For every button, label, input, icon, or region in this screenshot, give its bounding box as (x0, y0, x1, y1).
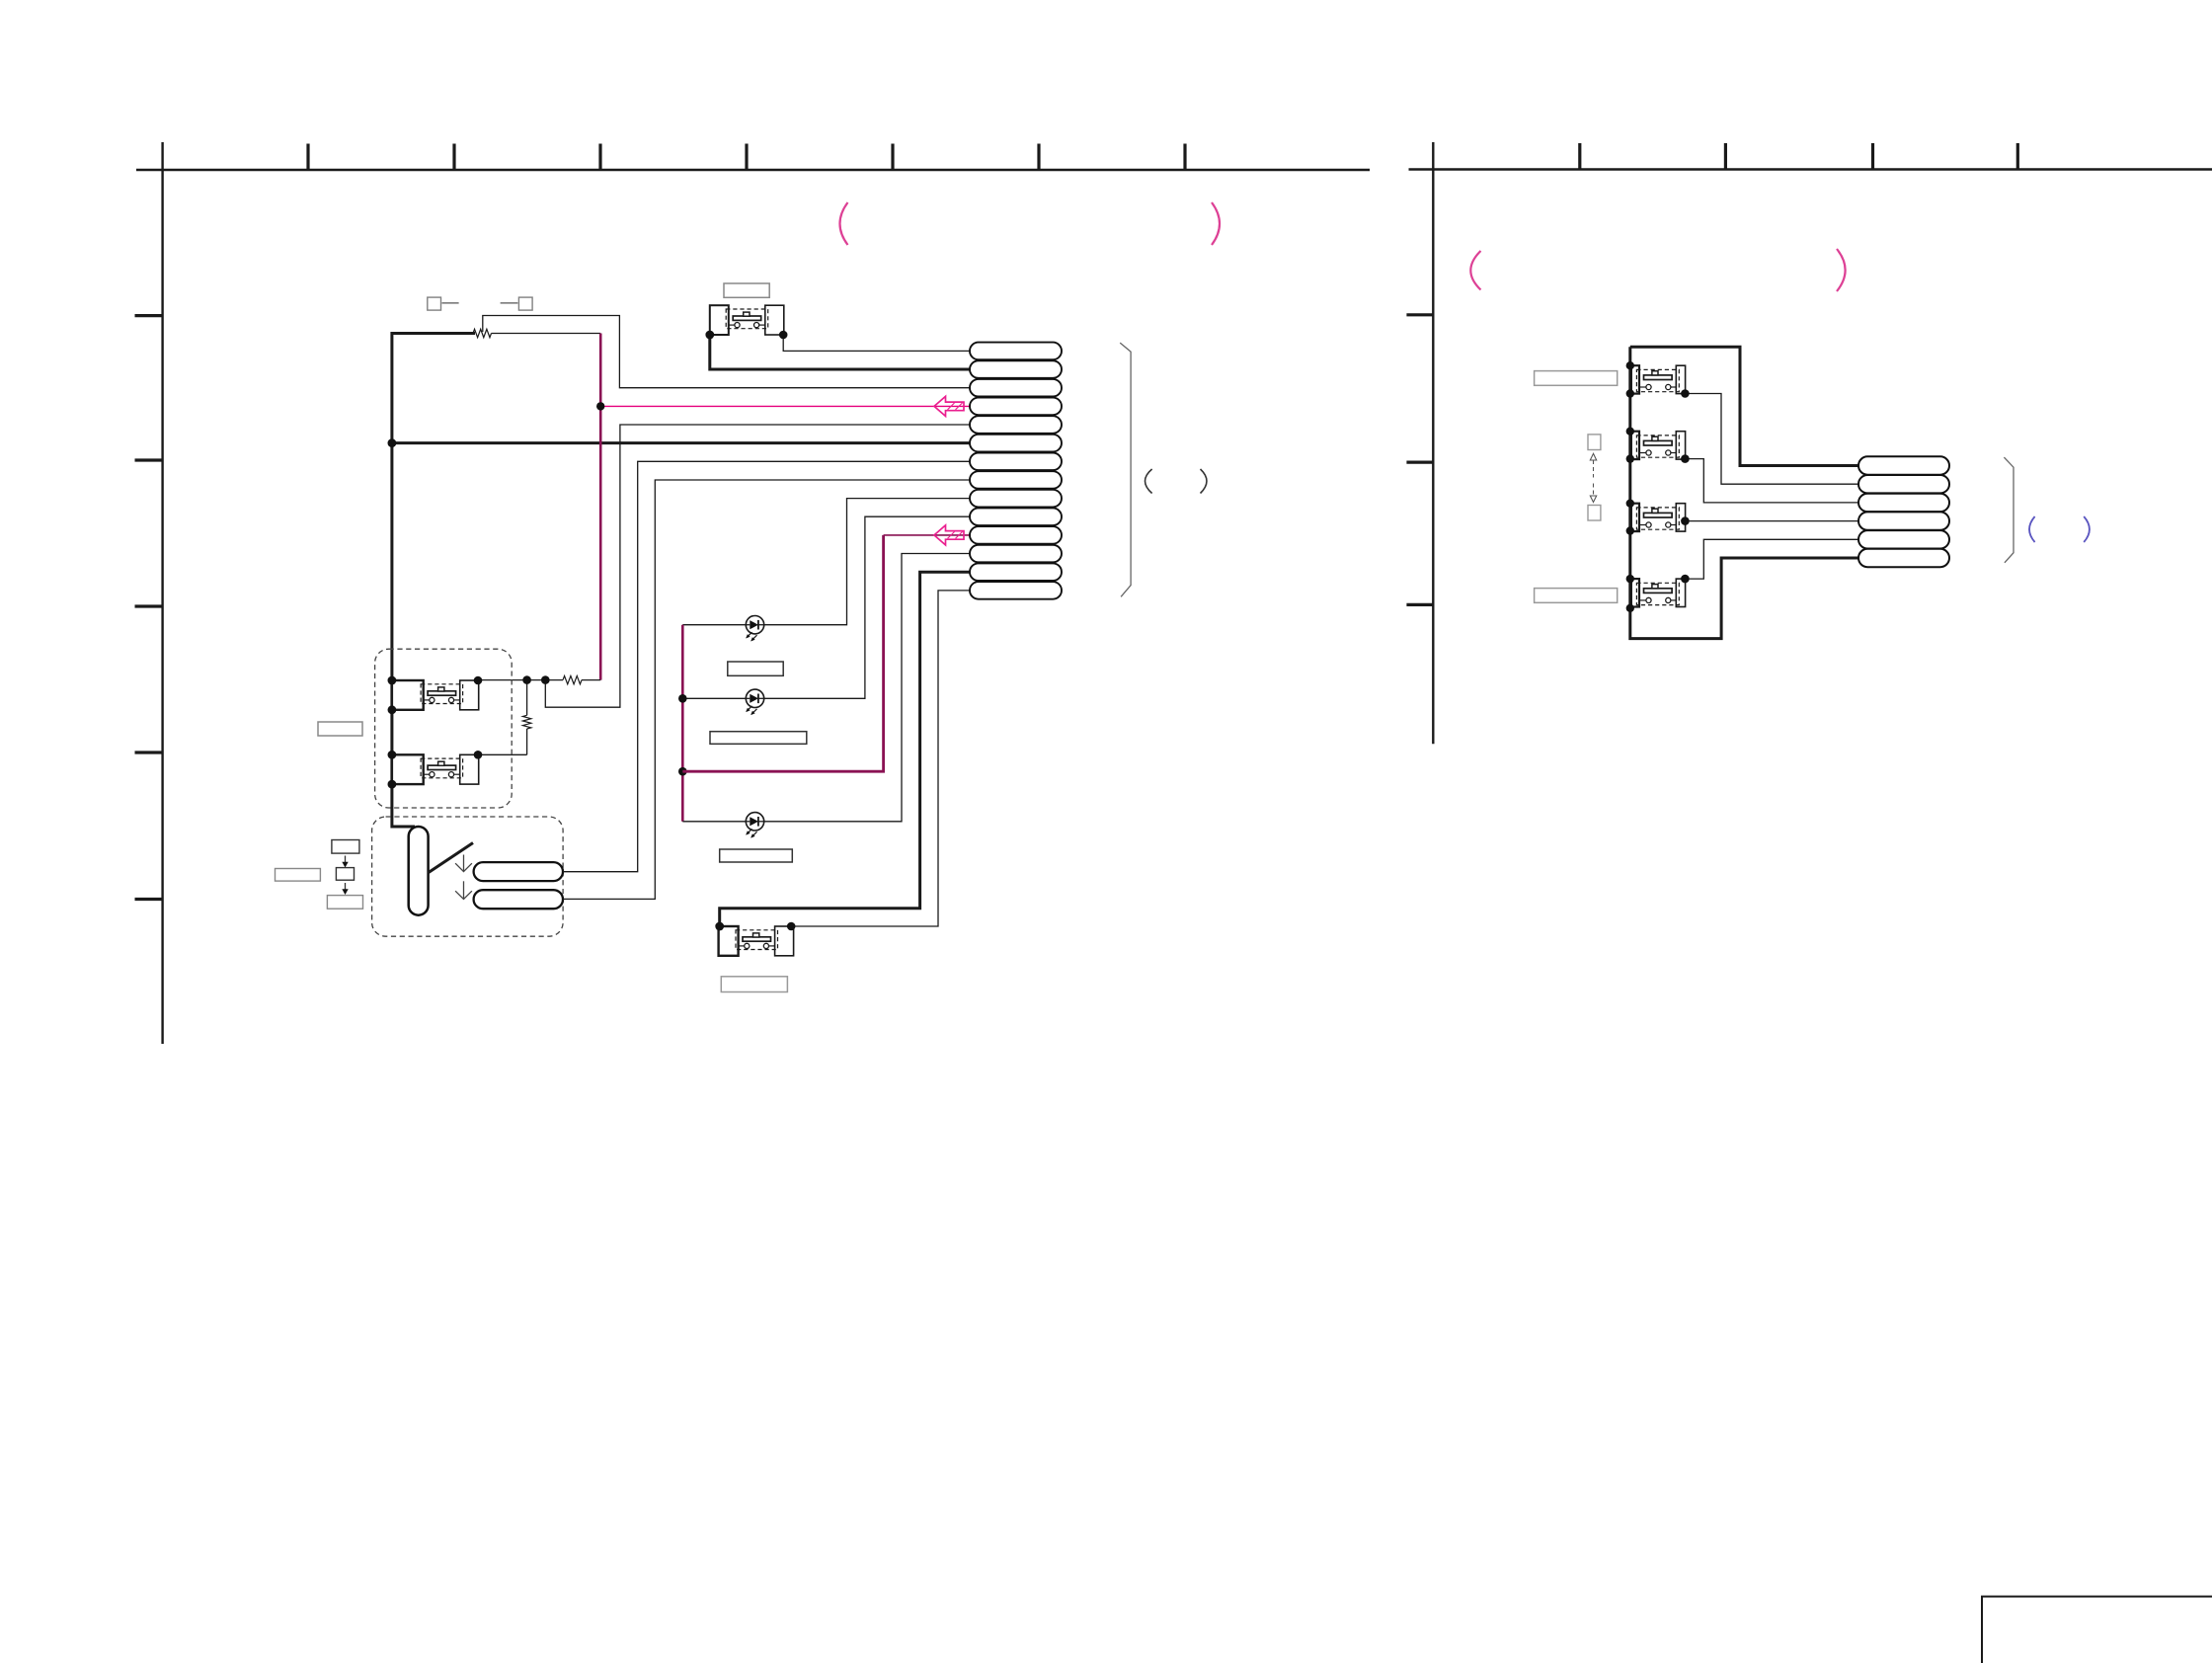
jog contact pill 1 (474, 862, 563, 881)
wire: bold bus from resistor to left vertical rail (392, 334, 475, 681)
small square (direction indicator upper) (1588, 435, 1601, 450)
wire: S1 right pin to pill 1 (783, 335, 970, 351)
wire: pill 12 down to LED D3 (764, 554, 970, 822)
connector CN1 pills (14 pins) (970, 343, 1062, 599)
label box D (jog, wide left) (276, 869, 321, 882)
tact switch S4 (bottom) (719, 926, 794, 956)
left sheet title parentheses (840, 202, 848, 245)
wire: S5 to pill R2 (1685, 394, 1858, 485)
wire: bold rail through key block down to jog block (392, 680, 415, 827)
jog direction chevron arrow 1 (455, 855, 472, 872)
wire: pill 5 net down-left to key common node (545, 425, 970, 707)
wire: pill 13 bold path to bottom switch S4 (720, 572, 970, 926)
arrow from box B to box C (342, 883, 348, 895)
label box for LED D1 (728, 662, 783, 675)
wire: S1 left pin to pill 2 (bold) (710, 335, 970, 369)
net: purple vertical from R1 down to resistor R2 (599, 334, 602, 680)
wire: bold bus left rail and bottom run to pill R6 (1630, 347, 1858, 638)
wire: pill 9 down to LED D1 (764, 499, 970, 625)
right sheet title parentheses (1470, 251, 1480, 290)
node: S1 pin junction dots (705, 331, 787, 340)
node: junction of bold bus and long bold wire to pill 6 (388, 438, 971, 447)
jog direction chevron arrow 2 (455, 881, 472, 899)
tact switch S2 (key block upper) (392, 680, 479, 710)
label box below S4 (721, 977, 787, 992)
label box C (jog, lower) (327, 896, 362, 910)
node: key common junction dots (522, 675, 549, 684)
node: S2 junction dots (388, 676, 483, 715)
resistor R3 (vertical, between key rows) (478, 680, 531, 755)
bracket for connector CN1 (1120, 343, 1131, 596)
node: S8 junction dots (1626, 575, 1690, 612)
dashed arrow down (1590, 484, 1596, 503)
node: S6 junction dots (1626, 428, 1690, 463)
label box for LED D2 (710, 732, 807, 745)
frame: right sheet ruler border (1406, 142, 2212, 744)
tact switch S8 (1631, 579, 1686, 606)
connector square (test point) with lead, right (501, 297, 533, 310)
jog contact pill 2 (474, 890, 563, 909)
dashed enclosure: key switch block (375, 649, 513, 808)
page corner box (bottom right) (1982, 1597, 2212, 1663)
wire: key switch commons to resistor R2 and purple net (478, 679, 563, 681)
label box for top switch (724, 283, 769, 297)
tact switch S5 (1631, 365, 1686, 393)
tact switch S3 (key block lower) (392, 754, 479, 784)
tact switch S6 (1631, 432, 1686, 459)
LED D1 (682, 616, 763, 642)
label box for switch S5 (1535, 371, 1618, 386)
tact switch S1 (top) (710, 305, 784, 335)
net: bright magenta wire to connector pill 4 with arrow (596, 396, 970, 416)
net: purple LED supply vertical (678, 625, 687, 822)
dashed enclosure: jog lever block (372, 817, 563, 936)
jog lever body (vertical pill) (409, 827, 429, 915)
wire: jumper from resistor left node up and over to pill 3 line (483, 316, 970, 388)
node: S7 junction dots (1626, 500, 1690, 535)
wire: pill 10 down to LED D2 (764, 516, 970, 698)
wire: S7 to pill R4 (1685, 520, 1858, 522)
wire: S8 to pill R5 (1685, 539, 1858, 579)
connector square (test point) with lead, left (428, 297, 459, 310)
net: bold purple wire to pill 11 with arrow (682, 525, 970, 771)
CN1 parentheses annotation (1145, 469, 1152, 494)
wire: bold bus top run to pill R1 (1630, 347, 1858, 465)
node: S3 junction dots (388, 751, 483, 789)
wire: jog pill 1 to pill 7 (563, 461, 970, 871)
wire: pill 14 to S4 right pin (791, 591, 970, 926)
LED D3 (682, 813, 763, 838)
CN2 parentheses annotation (2029, 516, 2035, 542)
label box left of key block (318, 722, 362, 736)
resistor R1 (series with purple net) (473, 329, 600, 337)
label box B (jog, small middle) (336, 868, 354, 881)
resistor R2 (horizontal, to purple net) (563, 675, 600, 683)
node: S4 junction dots (715, 922, 795, 931)
small square (direction indicator lower) (1588, 506, 1601, 521)
jog lever arm (428, 843, 473, 874)
wire: S6 to pill R3 (1685, 459, 1858, 503)
node: S5 junction dots (1626, 361, 1690, 398)
arrow from box A to box B (342, 856, 348, 868)
label box for switch S8 (1535, 589, 1618, 603)
frame: left sheet ruler border (135, 142, 1371, 1044)
LED D2 (682, 689, 763, 715)
connector CN2 pills (6 pins) (1858, 456, 1949, 567)
bracket for connector CN2 (2004, 457, 2014, 563)
label box A (jog, upper) (332, 840, 359, 854)
label box for LED D3 (720, 849, 793, 862)
dashed arrow up (1590, 453, 1596, 477)
wire: jog pill 2 to pill 8 (563, 480, 970, 899)
tact switch S7 (1631, 504, 1686, 531)
